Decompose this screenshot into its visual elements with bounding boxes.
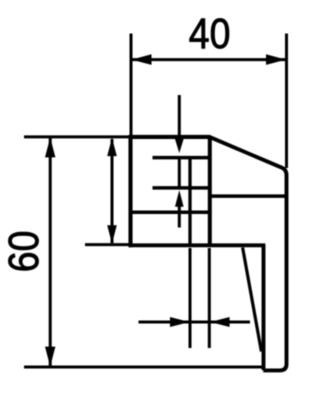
svg-text:60: 60	[0, 231, 48, 273]
svg-text:40: 40	[189, 10, 231, 58]
